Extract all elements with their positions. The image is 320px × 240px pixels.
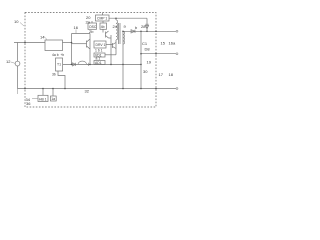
svg-text:1a: 1a <box>51 97 55 101</box>
svg-text:36: 36 <box>26 101 31 106</box>
svg-text:C1: C1 <box>142 41 148 46</box>
svg-text:12: 12 <box>6 59 11 64</box>
svg-text:CMP 1: CMP 1 <box>97 16 107 20</box>
svg-text:HB 1: HB 1 <box>39 97 47 101</box>
svg-text:1 b 1: 1 b 1 <box>95 49 103 53</box>
svg-text:18: 18 <box>169 72 174 77</box>
svg-text:19: 19 <box>147 60 152 65</box>
svg-text:3b: 3b <box>52 73 56 77</box>
svg-text:14: 14 <box>40 35 45 40</box>
svg-text:+b: +b <box>61 53 65 57</box>
svg-text:32: 32 <box>85 89 90 94</box>
svg-text:30: 30 <box>143 69 148 74</box>
svg-text:2b: 2b <box>89 29 94 34</box>
svg-text:16: 16 <box>74 25 79 30</box>
svg-text:17: 17 <box>159 72 164 77</box>
svg-text:24: 24 <box>113 24 118 29</box>
svg-text:4b: 4b <box>101 25 105 29</box>
svg-text:15: 15 <box>161 41 166 46</box>
svg-text:DRV 1: DRV 1 <box>96 43 106 47</box>
svg-text:10: 10 <box>14 19 19 24</box>
svg-text:OSC: OSC <box>89 25 97 29</box>
svg-text:AD1: AD1 <box>95 61 102 65</box>
svg-text:28: 28 <box>141 24 146 29</box>
svg-text:D8: D8 <box>145 47 151 52</box>
svg-text:2a: 2a <box>86 20 91 25</box>
svg-text:16a: 16a <box>169 41 176 46</box>
svg-text:T1: T1 <box>57 63 61 67</box>
svg-text:4a b: 4a b <box>52 53 59 57</box>
